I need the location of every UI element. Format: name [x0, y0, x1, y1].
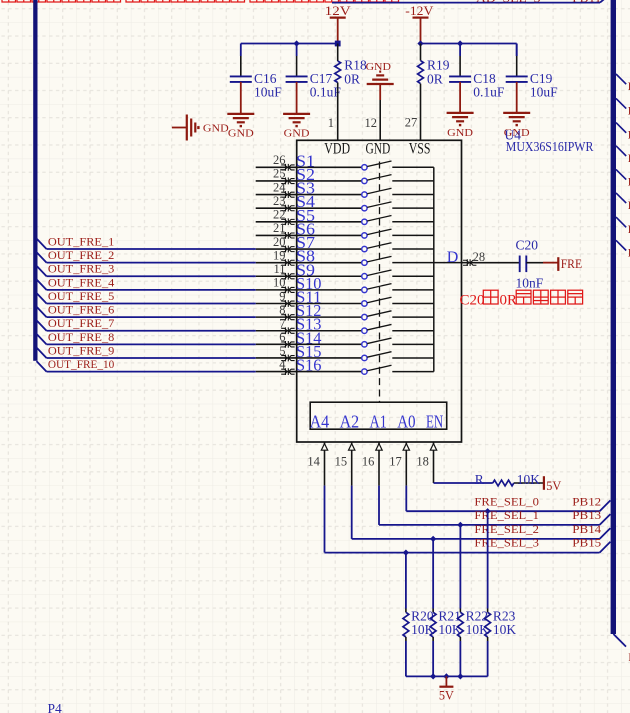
svg-text:-12V: -12V	[405, 4, 433, 18]
junction -12V node	[417, 40, 423, 46]
svg-text:11: 11	[273, 262, 285, 276]
wire FRE_SEL_0	[406, 496, 610, 511]
pin 28 D output	[447, 249, 520, 266]
svg-text:GND: GND	[228, 128, 254, 140]
wire OUT_FRE_3	[37, 264, 256, 277]
wire OUT_FRE_4	[37, 277, 256, 290]
wire OUT_FRE_1	[37, 236, 256, 249]
capacitor C19	[506, 44, 558, 100]
svg-text:7: 7	[279, 317, 285, 331]
svg-text:PB12: PB12	[572, 496, 601, 508]
pin 16 wire	[362, 442, 382, 525]
pin 1 number	[328, 116, 334, 130]
op-amp U1 MUX36S16IPWR body	[297, 140, 462, 442]
svg-text:C20: C20	[516, 237, 539, 252]
junction FRE_SEL_1	[457, 522, 463, 528]
svg-text:10K: 10K	[517, 472, 541, 487]
svg-text:12: 12	[365, 116, 378, 130]
svg-text:OUT_FRE_5: OUT_FRE_5	[48, 291, 115, 303]
svg-text:23: 23	[273, 194, 286, 208]
svg-text:PB15: PB15	[572, 538, 601, 550]
svg-text:FRE_SEL_0: FRE_SEL_0	[474, 496, 539, 508]
capacitor C20 10nF	[516, 237, 544, 290]
net label AD_SEL (cut off top)	[476, 0, 541, 5]
svg-text:EN: EN	[426, 412, 443, 432]
pin 11 S9 row	[256, 260, 434, 279]
svg-text:A4: A4	[310, 412, 330, 432]
svg-text:26: 26	[273, 153, 286, 167]
wire OUT_FRE_6	[37, 305, 256, 318]
pin 26 S1 row	[256, 151, 434, 170]
pin 23 S4 row	[256, 192, 434, 211]
svg-text:A1: A1	[370, 412, 387, 432]
svg-text:10uF: 10uF	[530, 84, 558, 99]
svg-text:5: 5	[279, 344, 285, 358]
svg-text:9: 9	[279, 289, 285, 303]
svg-text:FRE: FRE	[561, 257, 583, 271]
svg-text:21: 21	[273, 221, 286, 235]
svg-text:10uF: 10uF	[254, 84, 282, 99]
junction FRE_SEL_3	[403, 550, 409, 556]
svg-text:19: 19	[273, 248, 286, 262]
resistor R18 0R	[335, 44, 367, 141]
pin 24 S3 row	[256, 179, 434, 198]
junction FRE_SEL_0	[485, 508, 491, 514]
svg-text:0R: 0R	[344, 71, 360, 86]
ground GND at C16	[227, 82, 254, 140]
pin 14 wire	[307, 442, 327, 553]
ground GND at C19	[503, 82, 530, 139]
svg-text:15: 15	[335, 455, 348, 469]
power port -12V	[405, 4, 433, 43]
pin 21 S6 row	[256, 219, 434, 238]
wire 12V rail	[241, 43, 338, 45]
svg-text:S16: S16	[296, 356, 322, 375]
wire OUT_FRE_5	[37, 291, 256, 304]
pin 6 S14 row	[256, 328, 434, 347]
power port 5V (EN pull-up)	[544, 476, 561, 493]
svg-text:VSS: VSS	[409, 141, 431, 158]
pin 4 S16 row	[256, 356, 434, 375]
svg-text:MUX36S16IPWR: MUX36S16IPWR	[506, 139, 594, 154]
bus right vertical	[611, 0, 616, 634]
svg-text:OUT_FRE_8: OUT_FRE_8	[48, 332, 115, 344]
bus entries right side with clipped labels	[613, 74, 630, 664]
svg-text:C20: C20	[460, 293, 485, 309]
pin 27 number	[405, 116, 418, 130]
pin 12 number	[365, 116, 378, 130]
resistor R19 0R	[418, 44, 450, 141]
svg-text:R18: R18	[344, 57, 367, 72]
pin 7 S13 row	[256, 315, 434, 334]
junction 12V node (square)	[335, 41, 341, 47]
op part designator U4	[505, 128, 522, 143]
pin 5 S15 row	[256, 342, 434, 361]
svg-text:A0: A0	[397, 412, 415, 432]
svg-text:1: 1	[328, 116, 334, 130]
svg-text:FRE_SEL_2: FRE_SEL_2	[474, 524, 539, 536]
switch output bus vertical	[433, 167, 435, 371]
annotation cut-off red text (top edge)	[2, 0, 399, 2]
svg-text:16: 16	[362, 455, 375, 469]
svg-text:GND: GND	[447, 127, 473, 139]
svg-text:P4: P4	[48, 701, 63, 713]
svg-text:OUT_FRE_2: OUT_FRE_2	[48, 250, 115, 262]
ground GND at C17	[283, 82, 310, 140]
svg-text:12V: 12V	[325, 4, 351, 18]
svg-text:PB14: PB14	[572, 524, 601, 536]
svg-text:OUT_FRE_7: OUT_FRE_7	[48, 318, 115, 330]
svg-text:OUT_FRE_6: OUT_FRE_6	[48, 305, 115, 317]
wire OUT_FRE_2	[37, 250, 256, 263]
ground GND at C18	[447, 82, 474, 139]
resistor R 10K pull-up	[475, 472, 543, 487]
svg-text:4: 4	[279, 357, 286, 371]
pin 22 S5 row	[256, 206, 434, 225]
pin 19 S8 row	[256, 247, 462, 266]
annotation C20 red text	[460, 290, 583, 308]
pin 8 S12 row	[256, 301, 434, 320]
power port 12V	[325, 4, 351, 43]
svg-text:0.1uF: 0.1uF	[310, 84, 342, 99]
resistor R22 10K	[457, 525, 489, 677]
pin 17 wire	[389, 442, 409, 511]
pin 20 S7 row	[256, 233, 434, 252]
svg-text:20: 20	[273, 235, 286, 249]
bus left vertical	[33, 0, 37, 361]
wire top net	[332, 0, 609, 3]
svg-text:FRE_SEL_3: FRE_SEL_3	[474, 538, 539, 550]
svg-text:GND: GND	[366, 61, 391, 73]
svg-text:R19: R19	[427, 57, 450, 72]
svg-text:A2: A2	[340, 412, 360, 432]
svg-text:27: 27	[405, 116, 418, 130]
svg-text:FRE_SEL_1: FRE_SEL_1	[474, 510, 539, 522]
wire C20 to FRE	[526, 262, 557, 264]
part value MUX36S16IPWR	[506, 139, 594, 154]
wire OUT_FRE_9	[37, 345, 256, 358]
svg-text:25: 25	[273, 167, 286, 181]
junction C17 node	[294, 40, 300, 46]
ground GND earth-style (horizontal)	[172, 115, 229, 141]
wire FRE_SEL_1	[379, 510, 610, 525]
wire OUT_FRE_10	[37, 359, 256, 372]
wire C19 drop	[516, 44, 518, 57]
svg-text:OUT_FRE_10: OUT_FRE_10	[48, 359, 115, 371]
capacitor C17	[286, 44, 342, 100]
resistor R23 10K	[485, 511, 517, 676]
svg-text:GND: GND	[203, 123, 229, 135]
wire bottom 5V rail	[406, 675, 488, 677]
pin 9 S11 row	[256, 288, 434, 307]
pin 25 S2 row	[256, 165, 434, 184]
svg-text:OUT_FRE_1: OUT_FRE_1	[48, 236, 115, 248]
junction R21 rail	[430, 673, 436, 679]
address decode box A4 A2 A1 A0 EN	[310, 402, 447, 431]
pin 15 wire	[335, 442, 355, 539]
power port 5V bottom	[439, 676, 454, 702]
svg-text:D: D	[447, 249, 459, 266]
wire FRE_SEL_3	[325, 538, 611, 553]
svg-text:10: 10	[273, 276, 286, 290]
net label PB11 (cut off top)	[572, 0, 601, 5]
svg-text:8: 8	[279, 303, 285, 317]
svg-text:PB13: PB13	[572, 510, 601, 522]
svg-text:5V: 5V	[546, 479, 561, 493]
svg-text:GND: GND	[284, 128, 310, 140]
pin 10 S10 row	[256, 274, 434, 293]
wire pin12	[379, 100, 381, 140]
junction C18 node	[457, 40, 463, 46]
junction R22 rail	[457, 673, 463, 679]
svg-text:0.1uF: 0.1uF	[473, 84, 505, 99]
dashed control line	[379, 162, 381, 403]
svg-text:VDD: VDD	[324, 141, 350, 158]
svg-text:OUT_FRE_4: OUT_FRE_4	[48, 277, 115, 289]
svg-text:17: 17	[389, 455, 402, 469]
wire OUT_FRE_7	[37, 318, 256, 331]
wire OUT_FRE_8	[37, 332, 256, 345]
junction 5V stem	[443, 673, 449, 679]
svg-text:10K: 10K	[493, 622, 517, 637]
svg-text:0R: 0R	[500, 293, 518, 309]
svg-text:22: 22	[273, 208, 286, 222]
capacitor C18	[449, 44, 505, 100]
svg-text:14: 14	[307, 455, 320, 469]
svg-text:OUT_FRE_9: OUT_FRE_9	[48, 345, 115, 357]
svg-text:GND: GND	[366, 141, 391, 158]
junction FRE_SEL_2	[430, 536, 436, 542]
resistor R21 10K	[430, 539, 462, 677]
pin 18 EN wire	[416, 442, 492, 483]
svg-text:6: 6	[279, 330, 285, 344]
wire FRE_SEL_2	[352, 524, 611, 539]
svg-text:18: 18	[416, 455, 429, 469]
ground GND inverted (pin 12)	[366, 61, 394, 100]
part designator P4	[48, 701, 63, 713]
svg-text:24: 24	[273, 180, 286, 194]
svg-text:5V: 5V	[439, 689, 454, 703]
wire -12V rail	[421, 43, 517, 45]
capacitor C16	[230, 44, 282, 100]
svg-text:10nF: 10nF	[516, 276, 544, 291]
svg-text:0R: 0R	[427, 71, 443, 86]
resistor R20 10K	[403, 553, 435, 677]
svg-text:R: R	[475, 472, 484, 487]
svg-text:OUT_FRE_3: OUT_FRE_3	[48, 264, 115, 276]
power port FRE	[558, 257, 582, 271]
